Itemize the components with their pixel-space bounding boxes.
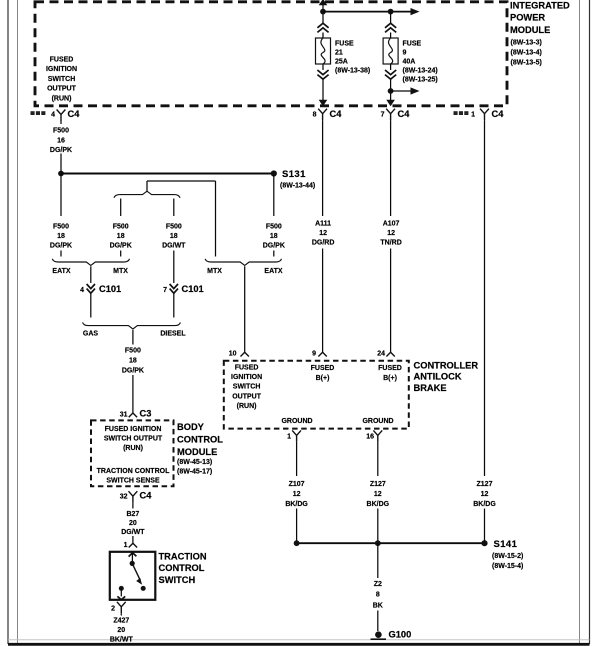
svg-text:F500: F500	[125, 348, 141, 355]
svg-text:G100: G100	[389, 630, 412, 640]
junction fuse9 branch	[388, 88, 394, 94]
svg-text:40A: 40A	[403, 58, 416, 65]
svg-text:SWITCH: SWITCH	[233, 384, 261, 391]
svg-text:BK/WT: BK/WT	[110, 637, 134, 644]
junction S141 middle	[375, 540, 381, 546]
svg-text:(8W-13-44): (8W-13-44)	[280, 183, 315, 190]
wire C4 pin7 to CAB pin 24 lower	[390, 249, 392, 353]
off-page chevrons above fuse 9	[385, 23, 396, 32]
svg-text:16: 16	[57, 137, 65, 144]
svg-text:9: 9	[312, 351, 316, 358]
svg-text:BK/DG: BK/DG	[367, 501, 390, 508]
svg-text:IGNITION: IGNITION	[46, 66, 77, 73]
svg-text:BK/DG: BK/DG	[473, 501, 496, 508]
svg-text:DG/PK: DG/PK	[122, 367, 144, 374]
integrated power module box	[35, 2, 507, 106]
svg-text:(8W-45-13): (8W-45-13)	[177, 459, 212, 466]
svg-text:A111: A111	[315, 220, 331, 227]
svg-text:12: 12	[374, 491, 382, 498]
arrow right fuse9 branch	[411, 87, 420, 94]
svg-text:A107: A107	[383, 220, 400, 227]
svg-text:FUSED IGNITION: FUSED IGNITION	[105, 426, 162, 433]
svg-text:B27: B27	[126, 511, 139, 518]
svg-text:DG/PK: DG/PK	[263, 243, 285, 250]
wire fuse21 down to C4 pin 8	[322, 80, 324, 101]
switch pivot contact	[130, 561, 135, 566]
svg-text:18: 18	[170, 233, 178, 240]
svg-text:BK/DG: BK/DG	[285, 501, 308, 508]
merge brace EATX/MTX left	[52, 259, 129, 266]
svg-text:(8W-15-4): (8W-15-4)	[492, 563, 523, 570]
junction S141 left	[294, 540, 300, 546]
svg-text:C4: C4	[492, 109, 505, 119]
svg-text:20: 20	[117, 627, 125, 634]
svg-text:EATX: EATX	[264, 268, 282, 275]
wire into fuse 9	[390, 33, 392, 39]
wire Z107 to S141	[296, 509, 298, 544]
wire C4 pin8 to CAB pin 9 lower	[322, 249, 324, 353]
page left inner border	[17, 0, 19, 644]
svg-text:S141: S141	[494, 539, 518, 550]
wire MTX-left branch upper	[120, 199, 122, 217]
svg-text:DG/WT: DG/WT	[121, 529, 145, 536]
svg-text:MODULE: MODULE	[510, 25, 550, 35]
svg-text:(RUN): (RUN)	[237, 403, 257, 410]
svg-text:20: 20	[129, 520, 137, 527]
svg-text:(RUN): (RUN)	[52, 95, 72, 102]
svg-text:OUTPUT: OUTPUT	[232, 393, 262, 400]
svg-text:GROUND: GROUND	[362, 418, 393, 425]
svg-text:12: 12	[293, 491, 301, 498]
wire C4 pin1 down	[484, 120, 486, 476]
svg-text:DG/PK: DG/PK	[50, 243, 72, 250]
svg-text:F500: F500	[113, 223, 129, 230]
wire fuse9 to chevrons	[390, 64, 392, 70]
svg-text:12: 12	[319, 230, 327, 237]
wire fuse9 down to C4 pin 7	[390, 80, 392, 101]
svg-text:C101: C101	[99, 284, 121, 294]
svg-text:MTX: MTX	[207, 268, 222, 275]
off-page chevrons above fuse 21	[317, 23, 328, 32]
svg-text:FUSE: FUSE	[335, 40, 354, 47]
splice S131	[271, 170, 277, 176]
switch wire to pin 2	[120, 588, 122, 596]
page bottom light rule	[8, 639, 590, 641]
svg-text:(8W-45-17): (8W-45-17)	[177, 469, 212, 476]
svg-text:FUSED: FUSED	[311, 365, 335, 372]
off-page chevrons below fuse 21	[317, 70, 328, 79]
upper distribution bus	[61, 173, 274, 175]
svg-text:SWITCH: SWITCH	[159, 575, 196, 585]
wire merge to C101 pin 4	[90, 266, 92, 283]
wire merged MTX/EATX to CAB pin 10	[244, 266, 246, 352]
wire to upper bus	[60, 154, 62, 174]
svg-text:18: 18	[270, 233, 278, 240]
page right inner border	[579, 0, 581, 644]
svg-text:B(+): B(+)	[383, 375, 397, 382]
svg-text:8: 8	[313, 112, 317, 119]
stub to split brace	[146, 181, 148, 191]
svg-text:2: 2	[111, 605, 115, 612]
svg-text:FUSED: FUSED	[50, 57, 74, 64]
wire CAB pin1 down	[296, 442, 298, 476]
svg-text:CONTROL: CONTROL	[177, 434, 223, 444]
wire label to C3 pin 31	[132, 375, 134, 413]
svg-text:IGNITION: IGNITION	[231, 374, 262, 381]
traction control switch box	[110, 552, 156, 600]
svg-text:SWITCH OUTPUT: SWITCH OUTPUT	[104, 436, 163, 443]
svg-text:DG/WT: DG/WT	[162, 243, 186, 250]
svg-text:F500: F500	[53, 128, 69, 135]
svg-text:32: 32	[120, 493, 128, 500]
wire pin32 down	[132, 503, 134, 509]
svg-text:C4: C4	[140, 491, 153, 501]
fuse 9 40A	[383, 38, 398, 64]
merge brace MTX/EATX right	[205, 259, 281, 266]
svg-text:INTEGRATED: INTEGRATED	[510, 1, 570, 11]
wire into fuse 21	[322, 33, 324, 39]
svg-text:DG/PK: DG/PK	[110, 243, 132, 250]
svg-text:(8W-13-5): (8W-13-5)	[511, 60, 542, 67]
wire S141 down to Z2 label	[377, 543, 379, 578]
wire Z127 right to S141	[484, 509, 486, 544]
svg-text:ANTILOCK: ANTILOCK	[414, 372, 462, 382]
svg-text:FUSED: FUSED	[378, 365, 402, 372]
svg-text:Z107: Z107	[289, 481, 305, 488]
svg-text:FUSED: FUSED	[235, 365, 259, 372]
svg-text:25A: 25A	[335, 58, 348, 65]
svg-text:18: 18	[57, 233, 65, 240]
svg-text:TN/RD: TN/RD	[380, 240, 401, 247]
wire fuse21 top vertical	[322, 4, 324, 24]
top feed bus horizontal	[323, 11, 411, 13]
svg-text:31: 31	[120, 411, 128, 418]
svg-text:S131: S131	[282, 169, 306, 180]
svg-text:C4: C4	[68, 109, 81, 119]
svg-text:BRAKE: BRAKE	[414, 383, 447, 393]
switch contact lower right	[141, 586, 146, 591]
arrow up through IPM top edge	[319, 0, 328, 5]
svg-text:F500: F500	[166, 223, 182, 230]
svg-text:16: 16	[366, 433, 374, 440]
chevron arrow into switch at top	[129, 553, 137, 557]
page right outer border	[589, 0, 591, 644]
svg-text:Z2: Z2	[374, 581, 382, 588]
svg-text:12: 12	[481, 491, 489, 498]
arrow right end of top feed bus	[411, 8, 420, 15]
wire CAB pin16 down	[377, 442, 379, 476]
svg-text:POWER: POWER	[510, 13, 545, 23]
svg-text:FUSE: FUSE	[403, 40, 422, 47]
switch lever with arrow	[132, 563, 140, 580]
wire MTX-left lower	[120, 251, 122, 257]
svg-text:DG/RD: DG/RD	[312, 240, 335, 247]
svg-text:C3: C3	[140, 409, 152, 419]
svg-text:F500: F500	[53, 223, 69, 230]
svg-text:8: 8	[376, 592, 380, 599]
svg-text:7: 7	[381, 112, 385, 119]
chevron arrow out of switch at bottom	[117, 596, 125, 599]
svg-text:C101: C101	[182, 284, 204, 294]
wire S131 down to label	[273, 174, 275, 217]
arrow down at IPM edge pin 7	[386, 100, 395, 107]
svg-text:(8W-13-38): (8W-13-38)	[335, 67, 370, 74]
svg-text:SWITCH: SWITCH	[48, 76, 76, 83]
wire C4 pin4 down	[60, 121, 62, 124]
svg-text:(8W-13-4): (8W-13-4)	[511, 50, 542, 57]
svg-text:(8W-13-24): (8W-13-24)	[403, 67, 438, 74]
wire EATX-left lower	[60, 251, 62, 257]
arrow down at IPM edge pin 8	[319, 100, 328, 107]
sub-feed line	[147, 180, 216, 182]
wire fuse21 to chevrons	[322, 64, 324, 70]
page bottom border	[8, 643, 590, 646]
svg-text:C4: C4	[330, 109, 343, 119]
svg-text:TRACTION: TRACTION	[159, 551, 207, 561]
svg-text:CONTROL: CONTROL	[159, 563, 205, 573]
svg-text:GAS: GAS	[83, 330, 99, 337]
wire DGWT lower	[173, 251, 175, 284]
svg-text:CONTROLLER: CONTROLLER	[414, 360, 479, 370]
triple marks left of pin 4	[31, 111, 35, 115]
svg-text:BODY: BODY	[177, 422, 205, 432]
wire EATX-right lower	[273, 251, 275, 257]
svg-text:Z127: Z127	[477, 481, 493, 488]
svg-text:1: 1	[124, 542, 128, 549]
body control module box	[91, 420, 174, 486]
merge brace GAS/DIESEL	[83, 322, 181, 329]
wire to TCS pin 1	[132, 536, 134, 543]
branch to right arrow	[391, 90, 411, 92]
svg-text:24: 24	[377, 351, 385, 358]
svg-text:Z127: Z127	[370, 481, 386, 488]
ground G100 symbol	[375, 631, 382, 638]
svg-text:12: 12	[387, 230, 395, 237]
svg-text:MTX: MTX	[113, 268, 128, 275]
svg-text:C4: C4	[398, 109, 411, 119]
wire Z2 to G100	[377, 611, 379, 632]
svg-text:9: 9	[403, 49, 407, 56]
svg-text:18: 18	[117, 233, 125, 240]
wire C4 pin8 to CAB pin 9 upper	[322, 120, 324, 216]
svg-text:OUTPUT: OUTPUT	[47, 86, 77, 93]
svg-text:B(+): B(+)	[316, 375, 330, 382]
off-page chevrons below fuse 9	[385, 70, 396, 79]
svg-text:4: 4	[80, 287, 84, 294]
wire C101-7 to DIESEL brace	[173, 293, 175, 317]
wire DGWT branch upper	[173, 199, 175, 217]
wire pin2 stub	[120, 613, 122, 615]
svg-text:21: 21	[335, 49, 343, 56]
controller antilock brake box	[224, 361, 409, 429]
svg-text:4: 4	[51, 112, 55, 119]
wire Z127 mid to S141	[377, 509, 379, 544]
svg-text:F500: F500	[266, 223, 282, 230]
svg-text:EATX: EATX	[52, 268, 70, 275]
wire C101-4 to GAS brace	[90, 293, 92, 317]
svg-text:(8W-13-3): (8W-13-3)	[511, 40, 542, 47]
switch wire to pivot	[131, 553, 133, 562]
switch contact lower left	[119, 586, 124, 591]
junction at top bus x390	[388, 9, 394, 15]
svg-text:BK: BK	[373, 602, 383, 609]
svg-text:GROUND: GROUND	[281, 418, 312, 425]
svg-text:(8W-13-25): (8W-13-25)	[403, 76, 438, 83]
ground bus S141	[297, 542, 485, 544]
svg-text:Z427: Z427	[113, 617, 129, 624]
junction at top bus x323	[320, 9, 326, 15]
svg-text:DIESEL: DIESEL	[160, 330, 186, 337]
splice S141	[481, 540, 487, 546]
svg-text:MODULE: MODULE	[177, 447, 217, 457]
svg-text:7: 7	[163, 287, 167, 294]
wire EATX-left upper	[60, 174, 62, 217]
svg-text:18: 18	[129, 358, 137, 365]
page left outer border	[7, 0, 9, 644]
svg-text:1: 1	[287, 433, 291, 440]
svg-text:DG/PK: DG/PK	[50, 147, 72, 154]
svg-text:(8W-15-2): (8W-15-2)	[492, 553, 523, 560]
fuse 21 25A	[316, 38, 331, 64]
svg-text:(RUN): (RUN)	[123, 445, 143, 452]
split brace to MTX / DGWT wires	[114, 191, 180, 198]
svg-text:1: 1	[471, 112, 475, 119]
triple marks left of pin 1	[454, 111, 458, 115]
junction left of upper bus	[58, 171, 64, 177]
wire top bus down to fuse 9	[390, 12, 392, 24]
wire merged to BCM label	[132, 330, 134, 345]
wire C4 pin7 to CAB pin 24 upper	[390, 120, 392, 216]
svg-text:TRACTION CONTROL: TRACTION CONTROL	[97, 468, 170, 475]
svg-text:10: 10	[229, 351, 237, 358]
wire right MTX drop	[215, 181, 217, 257]
svg-text:SWITCH SENSE: SWITCH SENSE	[106, 477, 160, 484]
